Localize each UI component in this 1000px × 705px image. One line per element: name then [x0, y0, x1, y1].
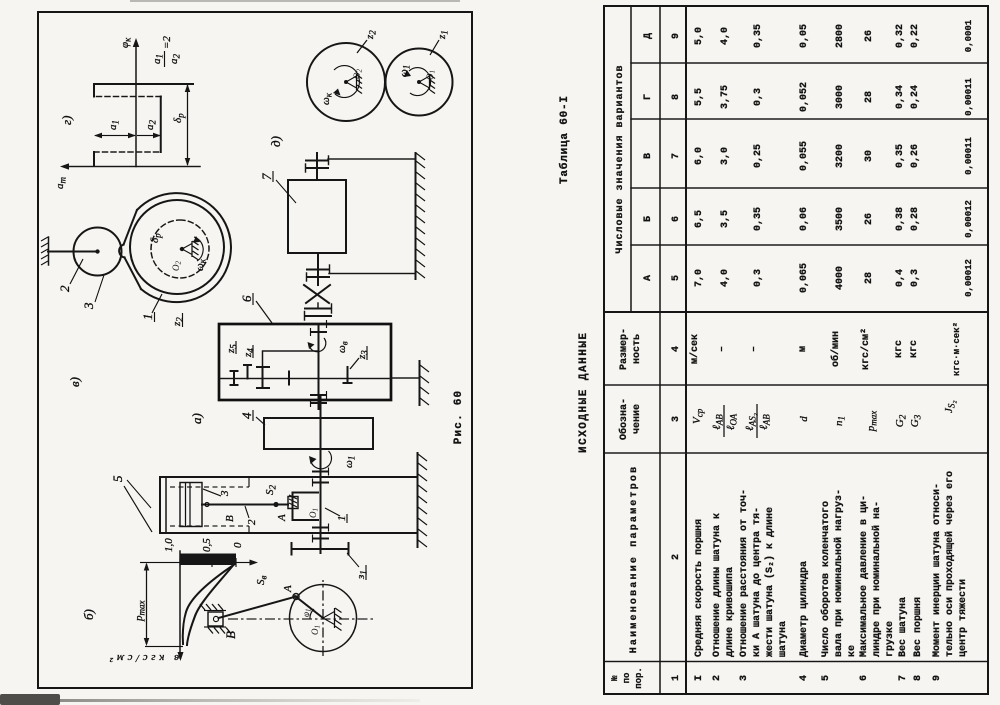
svg-text:9: 9: [932, 675, 943, 681]
gear z1 circle: [386, 49, 453, 116]
crank circle sketch: [290, 585, 357, 652]
engine ground: [417, 453, 419, 547]
link from big gear to main shaft: [263, 351, 318, 367]
piston pin B: [205, 503, 209, 507]
svg-text:3200: 3200: [835, 144, 846, 168]
crank web: [293, 493, 319, 521]
svg-text:б): б): [81, 609, 96, 620]
pivot O2: [344, 80, 348, 84]
dashed drop 1: [94, 151, 161, 153]
svg-text:2800: 2800: [835, 24, 846, 48]
svg-text:Vср: Vср: [691, 408, 705, 424]
svg-text:0,35: 0,35: [895, 144, 906, 168]
ground wall: [415, 153, 417, 279]
svg-text:а1: а1: [151, 54, 165, 64]
svg-text:ℓАВ: ℓАВ: [711, 414, 725, 430]
gear z2 circle: [307, 43, 385, 121]
svg-text:3: 3: [81, 302, 96, 310]
support drop right: [328, 158, 415, 160]
svg-text:кгс·м·сек²: кгс·м·сек²: [952, 322, 962, 376]
svg-text:О2: О2: [171, 261, 183, 272]
svg-text:28: 28: [864, 91, 875, 103]
gearbox 6 housing: [219, 324, 391, 400]
svg-text:тельно оси проходящей через ег: тельно оси проходящей через его: [944, 471, 956, 657]
svg-text:В: В: [224, 515, 236, 522]
step pulse a1 first segment: [93, 152, 95, 166]
svg-text:0: 0: [232, 542, 244, 548]
joint A sketch: [293, 594, 299, 600]
svg-text:2: 2: [712, 675, 723, 681]
pivot O1 sketch: [323, 608, 335, 628]
svg-text:7: 7: [671, 153, 682, 159]
svg-text:Отношение длины шатуна к: Отношение длины шатуна к: [712, 513, 723, 657]
piston 3: [180, 483, 202, 527]
bearing right: [313, 482, 328, 484]
svg-text:кгс: кгс: [894, 340, 905, 358]
svg-text:вала при номинальной нагруз-: вала при номинальной нагруз-: [833, 489, 845, 657]
svg-text:а2: а2: [144, 120, 158, 131]
svg-text:3: 3: [671, 416, 682, 422]
wall of pusher: [48, 237, 50, 265]
svg-text:Наименование параметров: Наименование параметров: [629, 465, 640, 654]
cam pivot: [180, 247, 184, 251]
svg-text:3,0: 3,0: [720, 147, 731, 165]
svg-text:Вес поршня: Вес поршня: [913, 597, 924, 657]
svg-text:28: 28: [864, 272, 875, 284]
gear z2 circle of cam unit: [130, 200, 224, 294]
svg-text:Рис. 60: Рис. 60: [453, 390, 465, 445]
svg-text:6,5: 6,5: [694, 210, 705, 228]
bevel gear z1 bar: [292, 548, 348, 550]
svg-text:длине кривошипа: длине кривошипа: [725, 567, 736, 657]
omega_1 rotation arrow: [311, 451, 332, 469]
svg-text:G2: G2: [894, 414, 908, 427]
svg-text:Числовые значения вариантов: Числовые значения вариантов: [615, 64, 626, 253]
svg-text:4,0: 4,0: [720, 269, 731, 287]
svg-text:ℓАS₂: ℓАS₂: [744, 413, 758, 431]
column line V-G: [631, 118, 988, 120]
svg-text:м/сек: м/сек: [689, 334, 701, 364]
cam nose: [124, 210, 142, 289]
svg-text:G3: G3: [909, 414, 923, 427]
svg-text:z2: z2: [364, 30, 378, 40]
svg-text:чение: чение: [632, 404, 643, 434]
S axis vertical: [140, 562, 254, 564]
svg-text:6: 6: [671, 216, 682, 222]
shaft to mass 7: [317, 253, 319, 285]
svg-text:0,05: 0,05: [799, 24, 810, 48]
svg-text:6: 6: [239, 295, 254, 302]
omega_v rotation arrow: [309, 338, 326, 352]
svg-text:0,3: 0,3: [753, 269, 764, 287]
omega_k cam arc: [194, 237, 203, 261]
svg-text:Обозна-: Обозна-: [617, 398, 630, 440]
svg-text:δр: δр: [149, 233, 163, 243]
bearing left: [313, 538, 328, 540]
scan artifact: bottom edge smudge: [0, 699, 420, 702]
svg-text:кгс: кгс: [909, 340, 920, 358]
svg-text:0,3: 0,3: [910, 269, 921, 287]
p_max dimension: [146, 564, 148, 644]
svg-text:0,00011: 0,00011: [964, 137, 974, 175]
dimension a1: [95, 135, 135, 137]
cylinder mouth ticks: [248, 526, 250, 533]
svg-text:а2: а2: [168, 54, 182, 65]
step pulse a1 second segment: [93, 84, 95, 97]
svg-text:I: I: [694, 675, 705, 681]
gear z4 stub: [247, 365, 249, 379]
figure frame border: [38, 12, 472, 688]
svg-text:О1: О1: [308, 508, 320, 518]
svg-text:0,065: 0,065: [799, 263, 810, 293]
omega_k arc arrow: [334, 66, 359, 98]
svg-text:2: 2: [57, 285, 72, 292]
bearing at right gearbox wall: [311, 331, 326, 333]
svg-text:Таблица 60-I: Таблица 60-I: [558, 95, 571, 184]
svg-text:5: 5: [821, 675, 832, 681]
svg-text:Б: Б: [643, 216, 654, 222]
dimension delta_p: [187, 85, 189, 165]
scale ticks: [179, 558, 181, 567]
step pulse a2 segment: [160, 97, 162, 153]
svg-text:д): д): [268, 136, 283, 147]
column line B-V: [631, 187, 988, 189]
big gear block on countershaft: [262, 367, 264, 388]
column line symbol: [604, 384, 988, 386]
svg-text:0,00011: 0,00011: [964, 78, 974, 116]
svg-text:В: В: [643, 153, 654, 159]
svg-text:г): г): [59, 116, 74, 125]
svg-text:А: А: [643, 275, 654, 281]
gearbox support: [391, 377, 419, 379]
svg-text:центр тяжести: центр тяжести: [958, 579, 969, 657]
svg-text:по: по: [622, 673, 632, 684]
p_max extension line: [145, 646, 183, 648]
svg-text:0,35: 0,35: [753, 24, 764, 48]
slider B guide left hatching: [204, 626, 226, 628]
svg-text:грузке: грузке: [885, 621, 896, 657]
crankshaft: [320, 397, 322, 553]
svg-text:0,052: 0,052: [799, 82, 810, 112]
table outer border: [604, 6, 988, 694]
svg-text:6,0: 6,0: [694, 147, 705, 165]
svg-text:Средняя скорость поршня: Средняя скорость поршня: [694, 519, 705, 657]
svg-text:0,38: 0,38: [895, 207, 906, 231]
svg-text:3000: 3000: [835, 85, 846, 109]
scan artifact: top edge line: [130, 0, 460, 2]
svg-text:ат: ат: [54, 177, 68, 190]
pusher stem: [48, 251, 97, 253]
column line units: [604, 311, 988, 313]
svg-text:3500: 3500: [835, 207, 846, 231]
svg-text:1,0: 1,0: [163, 538, 175, 552]
svg-text:z1: z1: [436, 30, 450, 40]
main shaft through gearbox: [318, 324, 320, 409]
shaft right of mass: [316, 153, 318, 180]
svg-text:9: 9: [671, 33, 682, 39]
svg-text:3,75: 3,75: [720, 85, 731, 109]
svg-text:Sв: Sв: [255, 576, 269, 586]
svg-text:0,5: 0,5: [201, 538, 213, 552]
svg-text:pmax: pmax: [133, 601, 147, 623]
svg-text:4000: 4000: [835, 266, 846, 290]
slider B block: [208, 612, 223, 626]
svg-text:7: 7: [259, 173, 274, 180]
coupling 3: [306, 167, 328, 169]
cylinder liner dashed right: [170, 486, 249, 488]
svg-text:pmax: pmax: [865, 411, 879, 433]
svg-text:2: 2: [246, 519, 258, 525]
svg-text:пор.: пор.: [634, 667, 644, 689]
svg-text:0,0001: 0,0001: [964, 19, 974, 52]
coupling 1: [305, 315, 331, 317]
svg-text:4: 4: [671, 346, 682, 352]
dashed rise 2: [94, 96, 161, 98]
svg-text:Максимальное давление в ци-: Максимальное давление в ци-: [859, 495, 870, 657]
indicator curve expansion: [183, 564, 235, 644]
column line no: [604, 661, 988, 663]
flywheel 4: [264, 418, 373, 449]
gear on countershaft mid: [288, 372, 290, 385]
svg-text:1: 1: [336, 516, 348, 522]
svg-text:7: 7: [898, 675, 909, 681]
svg-text:26: 26: [864, 213, 875, 225]
gearbox internal countershaft: [220, 378, 389, 380]
svg-text:4: 4: [799, 675, 810, 681]
crankpin block: [288, 497, 298, 509]
svg-text:ωк: ωк: [194, 258, 208, 271]
svg-text:Вес шатуна: Вес шатуна: [898, 597, 909, 657]
connecting rod AB sketch: [219, 597, 297, 619]
svg-text:5,5: 5,5: [694, 88, 705, 106]
svg-text:Отношение расстояния от точ-: Отношение расстояния от точ-: [739, 489, 750, 657]
svg-text:3: 3: [739, 675, 750, 681]
phi arc: [310, 609, 314, 619]
dimension a2: [137, 135, 160, 137]
svg-text:0,06: 0,06: [799, 207, 810, 231]
svg-text:ИСХОДНЫЕ ДАННЫЕ: ИСХОДНЫЕ ДАННЫЕ: [578, 331, 590, 453]
svg-text:5: 5: [110, 475, 125, 482]
crank line OA: [295, 596, 323, 618]
svg-text:0,34: 0,34: [895, 85, 906, 109]
svg-text:№: №: [610, 675, 620, 681]
svg-text:Г: Г: [643, 94, 654, 100]
svg-text:линдре при номинальной на-: линдре при номинальной на-: [871, 501, 883, 657]
indicator curve compression: [187, 566, 233, 646]
svg-text:О1: О1: [310, 625, 322, 635]
svg-text:n1: n1: [833, 416, 847, 426]
bearing at left gearbox wall: [311, 402, 326, 404]
svg-text:0,00012: 0,00012: [964, 200, 974, 238]
svg-text:в кгс/см²: в кгс/см²: [106, 652, 179, 664]
svg-text:0,25: 0,25: [753, 144, 764, 168]
svg-text:0,00012: 0,00012: [964, 259, 974, 297]
svg-text:ωк: ωк: [320, 92, 334, 105]
cam base dashed circle: [151, 220, 209, 278]
p top level line: [179, 551, 181, 658]
svg-text:–: –: [749, 346, 760, 352]
column line G-D: [631, 62, 988, 64]
svg-text:Д: Д: [643, 33, 654, 39]
table rule under column numbers: [685, 6, 687, 694]
svg-text:об/мин: об/мин: [829, 331, 842, 367]
indicator black bar: [181, 554, 237, 566]
svg-text:ность: ность: [632, 334, 643, 364]
svg-text:0,22: 0,22: [910, 24, 921, 48]
svg-text:5: 5: [671, 275, 682, 281]
svg-text:кгс/см²: кгс/см²: [860, 328, 872, 370]
svg-text:4: 4: [239, 412, 254, 419]
coupling 2: [307, 276, 329, 278]
svg-text:жести шатуна (S₂) к длине: жести шатуна (S₂) к длине: [764, 507, 776, 657]
pivot O1: [417, 80, 421, 84]
svg-text:d: d: [798, 416, 810, 422]
svg-text:–: –: [717, 346, 728, 352]
svg-text:8: 8: [913, 675, 924, 681]
axis phi_k horizontal: [135, 42, 137, 167]
cylinder head: [159, 477, 161, 533]
svg-text:а1: а1: [107, 120, 121, 130]
svg-text:ℓОА: ℓОА: [725, 413, 739, 430]
svg-text:0,055: 0,055: [799, 141, 810, 171]
svg-text:ке: ке: [847, 645, 858, 657]
svg-text:1: 1: [671, 675, 682, 681]
crank axis dash-dot vertical: [228, 618, 374, 620]
svg-text:ω1: ω1: [398, 65, 412, 77]
axis a_t vertical: [64, 166, 200, 168]
svg-text:а): а): [189, 413, 204, 424]
slider B guide right hatching: [204, 610, 226, 612]
elastic shaft zigzag: [317, 303, 319, 309]
table sub-rule under variants caption: [630, 6, 632, 312]
svg-text:Число оборотов коленчатого: Число оборотов коленчатого: [819, 501, 832, 657]
svg-text:0,26: 0,26: [910, 144, 921, 168]
svg-text:ωв: ωв: [336, 341, 350, 353]
table header rule under captions: [659, 6, 661, 694]
svg-text:шатуна: шатуна: [778, 621, 789, 657]
svg-text:JS₂: JS₂: [943, 400, 957, 413]
svg-text:φк: φк: [119, 37, 133, 48]
svg-text:0,28: 0,28: [910, 207, 921, 231]
center of mass S2: [273, 502, 278, 507]
svg-text:3,5: 3,5: [720, 210, 731, 228]
svg-text:А: А: [276, 514, 288, 522]
svg-text:ω1: ω1: [343, 456, 357, 468]
svg-text:0,3: 0,3: [753, 88, 764, 106]
svg-text:8: 8: [671, 94, 682, 100]
svg-text:7,0: 7,0: [694, 269, 705, 287]
svg-text:0,35: 0,35: [753, 207, 764, 231]
svg-text:0,32: 0,32: [895, 24, 906, 48]
piston rod 2: [202, 504, 288, 506]
svg-text:=2: =2: [161, 36, 173, 49]
svg-text:0,24: 0,24: [910, 85, 921, 109]
svg-text:Размер-: Размер-: [619, 328, 630, 370]
svg-text:ки А шатуна до центра тя-: ки А шатуна до центра тя-: [752, 507, 763, 657]
svg-text:4,0: 4,0: [720, 27, 731, 45]
cylinder right wall / frame: [160, 476, 417, 478]
mass 7 block: [288, 180, 346, 253]
svg-text:В: В: [223, 631, 238, 639]
cylinder liner dashed left: [170, 525, 249, 527]
column line A-B: [631, 244, 988, 246]
svg-text:0,4: 0,4: [895, 269, 906, 287]
svg-text:Диаметр цилиндра: Диаметр цилиндра: [799, 561, 810, 657]
svg-text:δр: δр: [172, 113, 186, 123]
crank axis dash-dot horizontal: [322, 580, 324, 656]
cylinder left wall / frame: [160, 532, 417, 534]
roller 2: [74, 228, 122, 276]
support drop left: [329, 273, 415, 275]
svg-text:2: 2: [671, 554, 682, 560]
omega_1 arc arrow: [409, 68, 431, 96]
svg-text:1: 1: [140, 314, 155, 321]
cam rim arc: [137, 193, 231, 302]
svg-text:6: 6: [859, 675, 870, 681]
pulse closing edge: [94, 83, 193, 85]
svg-text:А: А: [282, 585, 294, 593]
svg-text:S2: S2: [264, 485, 278, 496]
gear z5 on countershaft: [233, 371, 235, 385]
svg-text:м: м: [798, 346, 809, 352]
svg-text:26: 26: [864, 30, 875, 42]
svg-text:ℓАВ: ℓАВ: [758, 414, 772, 430]
svg-text:5,0: 5,0: [694, 27, 705, 45]
svg-text:в): в): [67, 377, 82, 387]
column line name: [604, 452, 988, 454]
svg-text:30: 30: [864, 150, 875, 162]
svg-text:Момент инерции шатуна относи-: Момент инерции шатуна относи-: [932, 483, 943, 657]
bevel gear z3: [347, 367, 349, 383]
